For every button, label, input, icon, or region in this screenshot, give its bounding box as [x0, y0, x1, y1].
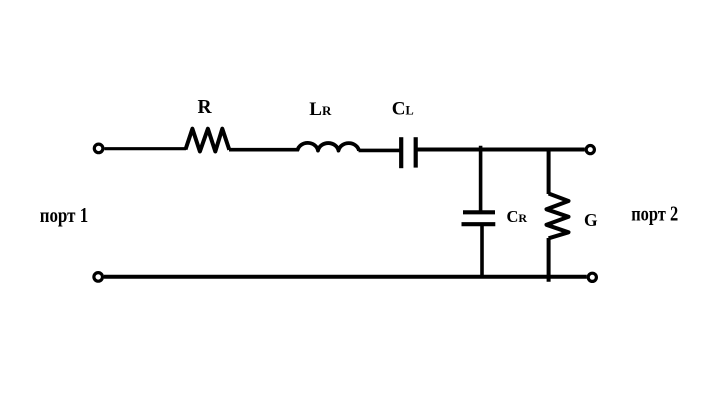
- wire CL-to-port2: [418, 148, 585, 152]
- wire CR top stub: [479, 146, 483, 211]
- capacitor CL plate right: [414, 137, 418, 167]
- capacitor CL plate left: [399, 137, 403, 168]
- svg-text:порт 1: порт 1: [40, 203, 88, 227]
- resistor R: [186, 129, 230, 152]
- wire R-to-LR: [229, 148, 299, 152]
- svg-text:LR: LR: [309, 99, 332, 120]
- resistor G: [547, 194, 569, 239]
- svg-text:G: G: [584, 210, 598, 230]
- svg-text:R: R: [198, 97, 213, 118]
- wire G bottom stub: [547, 238, 551, 282]
- svg-text:CR: CR: [507, 207, 528, 226]
- terminal port1 top: [94, 144, 103, 153]
- inductor LR: [298, 143, 360, 151]
- capacitor CR plate top: [463, 210, 495, 214]
- terminal port2 top: [586, 146, 594, 154]
- svg-text:порт 2: порт 2: [631, 202, 678, 226]
- svg-text:CL: CL: [392, 99, 414, 120]
- wire bottom: [104, 275, 587, 279]
- wire G top stub: [547, 148, 551, 195]
- capacitor CR plate bottom: [462, 222, 496, 226]
- wire CR bottom stub: [480, 226, 484, 277]
- wire LR-to-CL: [359, 149, 400, 153]
- terminal port1 bottom: [94, 273, 103, 282]
- wire port1-to-R: [105, 147, 187, 150]
- terminal port2 bottom: [588, 273, 596, 281]
